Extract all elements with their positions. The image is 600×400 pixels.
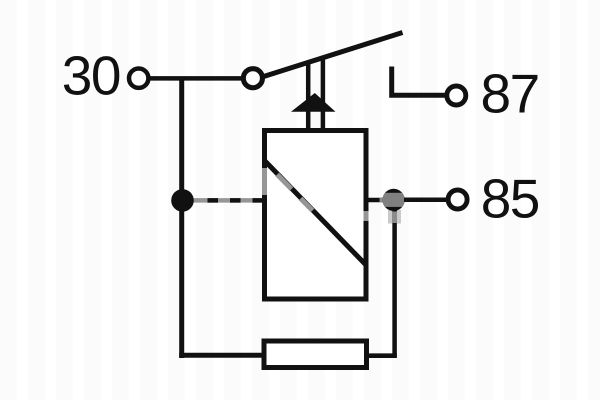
- terminal 85 circle: [448, 190, 467, 209]
- wire coil-left stub (gray with black dashes): [190, 198, 263, 203]
- svg-text:30: 30: [62, 45, 120, 107]
- watermark gray on wire below 85 node: [392, 212, 397, 224]
- watermark gray on coil diagonal: [277, 175, 291, 190]
- wire resistor to right riser: [366, 353, 397, 358]
- wire 30-to-switch: [148, 76, 244, 81]
- wire 85 node to terminal: [404, 198, 449, 203]
- wire from 85 node down to resistor: [392, 202, 397, 358]
- resistor R1: [264, 341, 367, 368]
- relay coil box K1: [265, 131, 367, 300]
- wire vertical from 30 node down: [179, 77, 184, 358]
- watermark gray on coil box left edge: [262, 168, 267, 195]
- watermark gray on coil-right stub: [380, 198, 385, 203]
- terminal 87 hook wire: [392, 67, 445, 96]
- actuator link lines: [306, 61, 311, 133]
- junction node 85 (dot with watermark band): [380, 189, 407, 211]
- switch arm: [261, 33, 403, 78]
- coil diagonal: [264, 160, 367, 266]
- actuator arrow head: [291, 93, 336, 112]
- svg-text:85: 85: [481, 168, 539, 230]
- watermark patch near 85 node: [388, 210, 401, 224]
- watermark gray on coil box right edge: [364, 211, 369, 221]
- terminal 87 circle: [447, 86, 466, 105]
- wire coil-right stub: [366, 198, 386, 203]
- switch pivot circle: [243, 69, 262, 88]
- terminal 30 circle: [129, 69, 148, 88]
- junction node 30/coil (dot): [171, 189, 194, 212]
- wire bottom left to resistor: [179, 353, 265, 358]
- svg-text:87: 87: [481, 63, 539, 125]
